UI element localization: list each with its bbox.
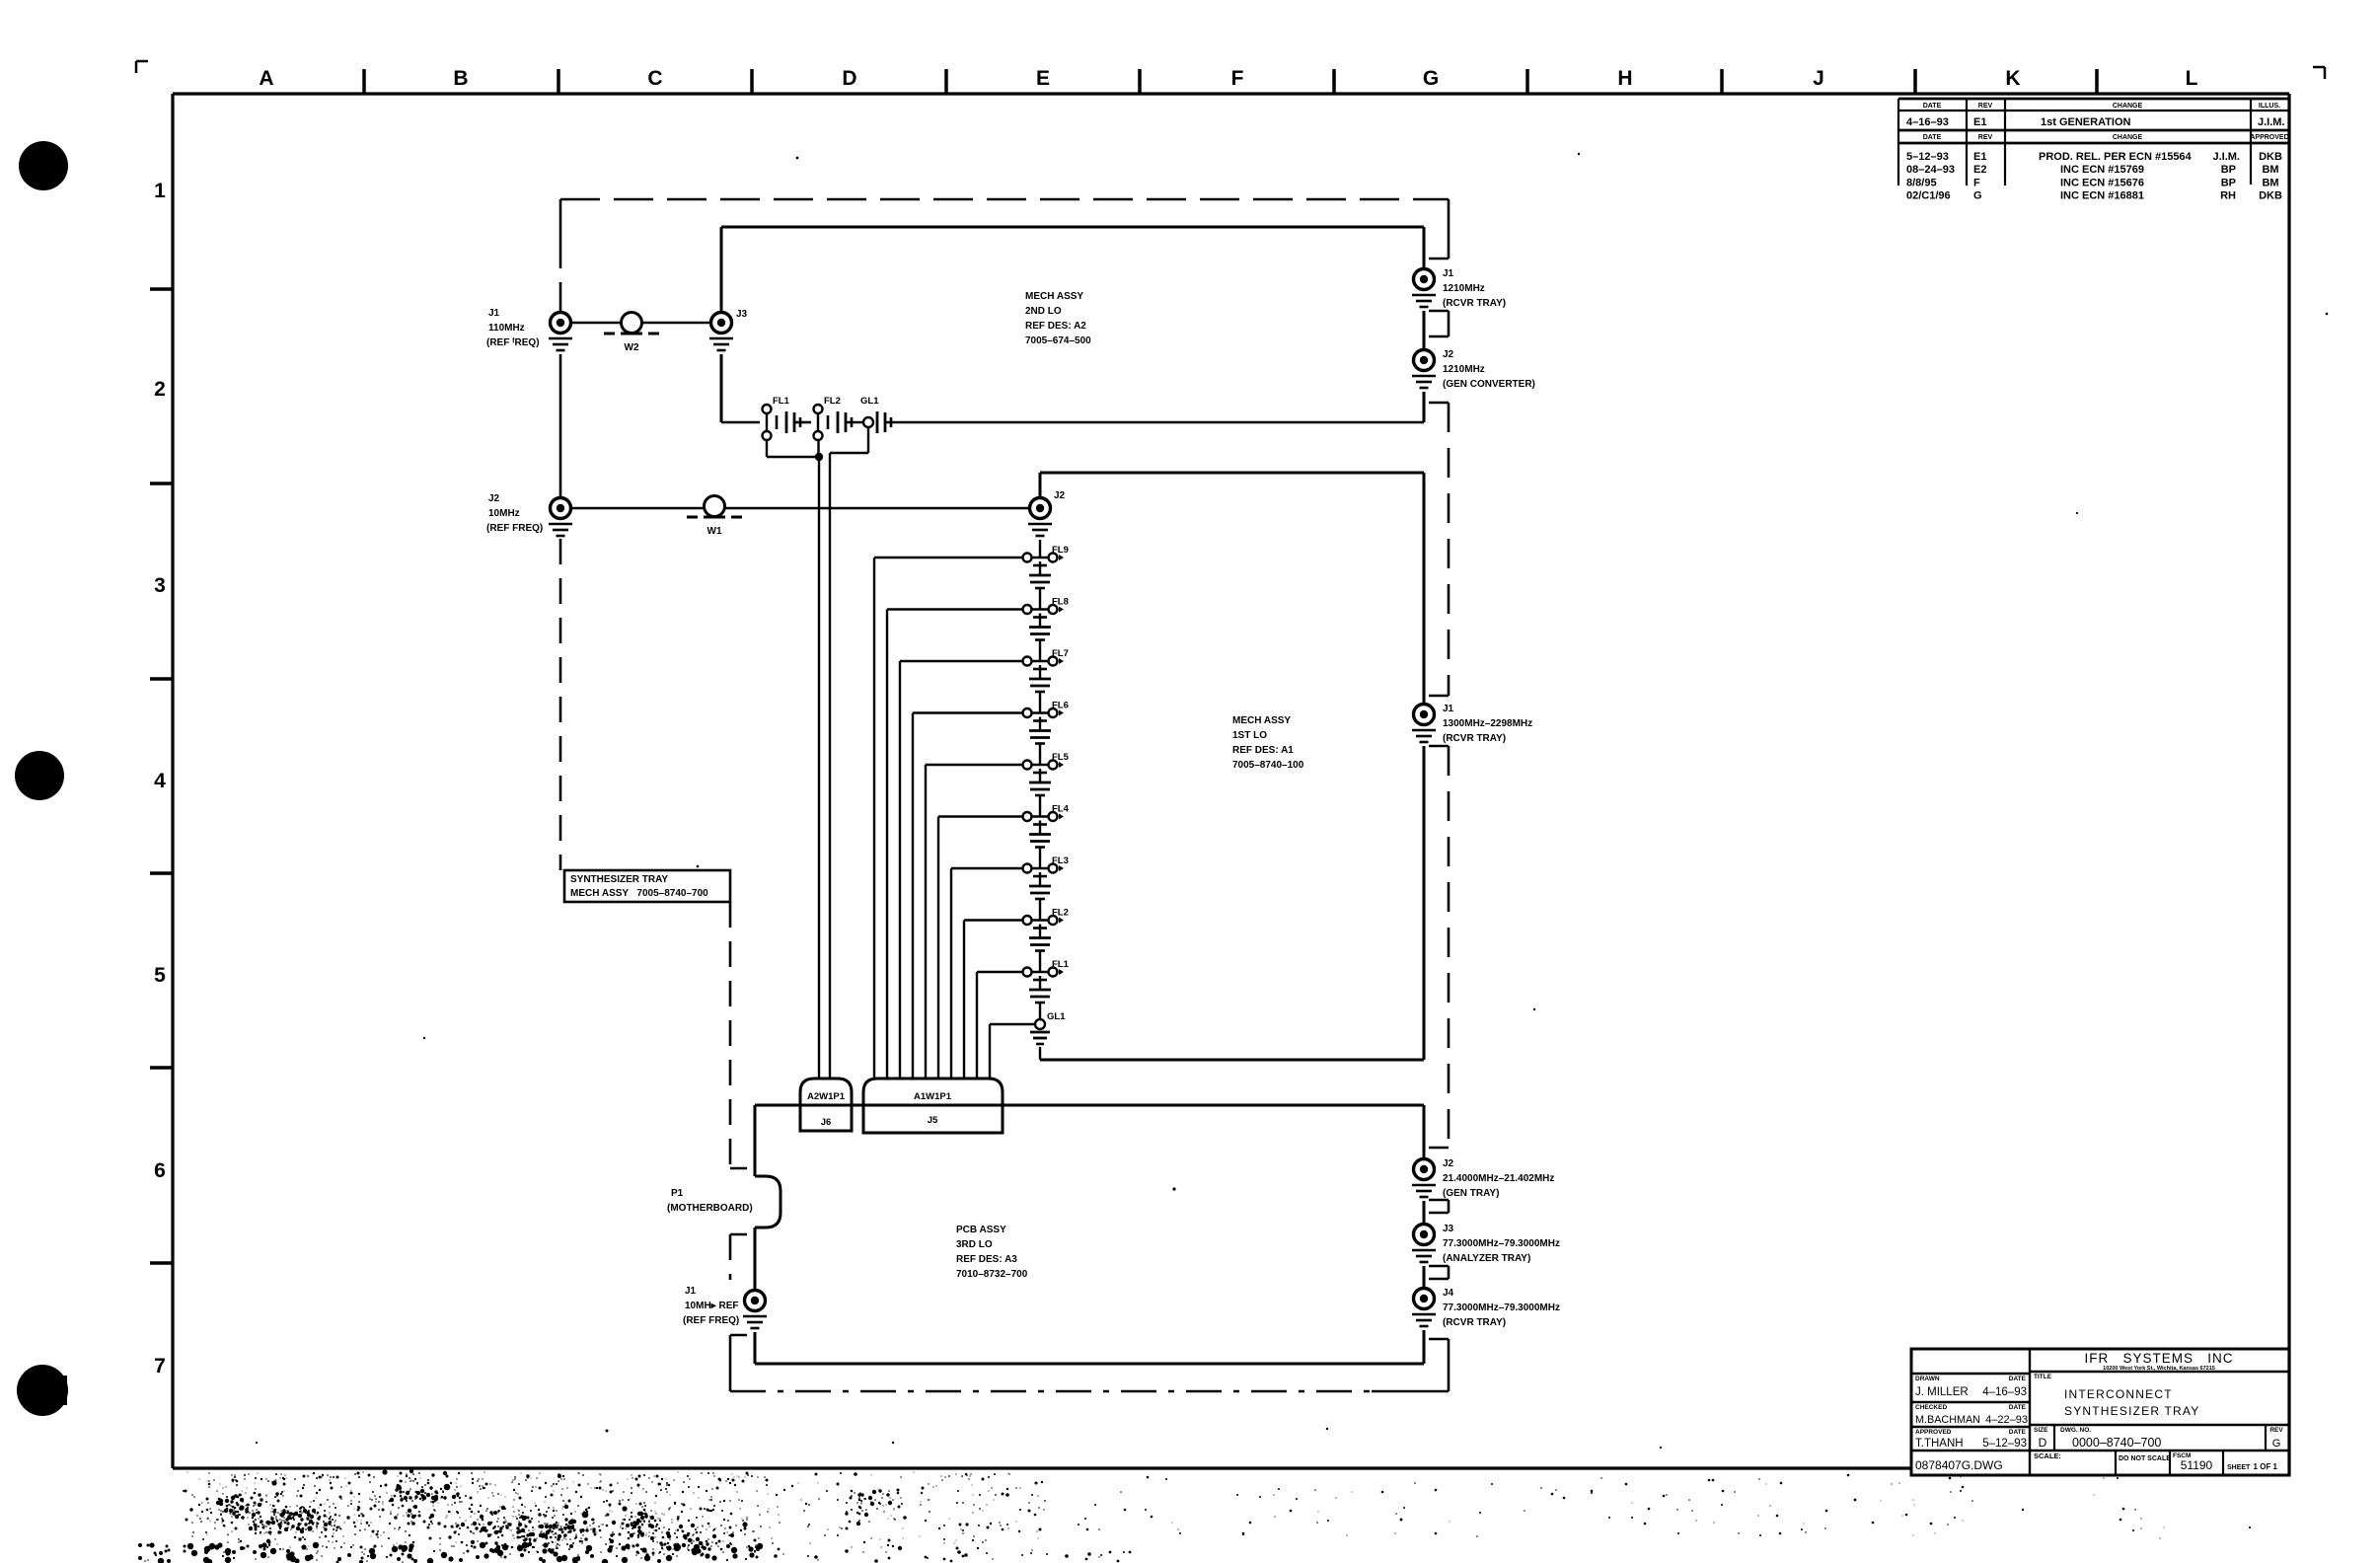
svg-text:A1W1P1: A1W1P1 [914, 1091, 952, 1102]
feedthrough capacitor FL7 (A1) [1023, 648, 1069, 713]
svg-text:DATE: DATE [1923, 134, 1942, 141]
svg-text:INTERCONNECT: INTERCONNECT [2064, 1387, 2173, 1401]
svg-text:1210MHz: 1210MHz [1443, 283, 1485, 294]
svg-text:E: E [1036, 67, 1050, 90]
wire: FL1/FL2 to connector J6 pin [767, 441, 819, 1079]
svg-text:(GEN CONVERTER): (GEN CONVERTER) [1443, 379, 1535, 390]
svg-text:DATE: DATE [1923, 103, 1942, 110]
svg-text:(REF FREQ): (REF FREQ) [486, 523, 543, 534]
svg-text:A: A [259, 67, 273, 90]
svg-text:J6: J6 [821, 1117, 832, 1128]
svg-text:PCB ASSY: PCB ASSY [956, 1225, 1006, 1235]
svg-text:FL2: FL2 [824, 396, 841, 407]
svg-text:C: C [647, 67, 662, 90]
svg-text:J3: J3 [1443, 1224, 1454, 1234]
svg-text:J5: J5 [928, 1115, 938, 1126]
svg-text:1st GENERATION: 1st GENERATION [2041, 116, 2131, 128]
svg-text:GL1: GL1 [860, 396, 879, 407]
svg-text:DKB: DKB [2259, 190, 2282, 202]
wire: FL1 to connector J5 pin [977, 972, 1022, 1079]
svg-text:FL3: FL3 [1052, 856, 1069, 866]
wire: assembly A3 PCB outline [755, 1105, 1424, 1364]
svg-text:DATE: DATE [2009, 1404, 2027, 1411]
svg-text:SYNTHESIZER TRAY: SYNTHESIZER TRAY [570, 874, 668, 885]
svg-text:2ND LO: 2ND LO [1025, 306, 1062, 317]
feedthrough capacitor FL1 (A2) [763, 396, 801, 440]
svg-text:0000–8740–700: 0000–8740–700 [2072, 1436, 2161, 1450]
feedthrough capacitor FL2 (A1) [1023, 908, 1069, 973]
svg-text:J3: J3 [736, 309, 748, 320]
svg-text:7010–8732–700: 7010–8732–700 [956, 1269, 1028, 1280]
feedthrough capacitor FL5 (A1) [1023, 752, 1070, 817]
svg-text:BP: BP [2221, 177, 2236, 188]
svg-text:REF DES: A2: REF DES: A2 [1025, 321, 1086, 332]
svg-text:FL6: FL6 [1052, 701, 1069, 711]
svg-text:E1: E1 [1973, 151, 1986, 163]
svg-text:D: D [2039, 1436, 2047, 1450]
svg-text:FL7: FL7 [1052, 648, 1069, 659]
connector J1 10MHz REF (REF FREQ) [683, 1286, 766, 1326]
svg-text:M.BACHMAN: M.BACHMAN [1915, 1414, 1980, 1426]
svg-text:MECH ASSY 7005–8740–700: MECH ASSY 7005–8740–700 [570, 888, 708, 899]
connector P1 (MOTHERBOARD) [667, 1176, 781, 1228]
svg-text:8/8/95: 8/8/95 [1906, 177, 1937, 188]
wire: GL1 to connector J6 pin [830, 427, 868, 1079]
svg-text:1210MHz: 1210MHz [1443, 364, 1485, 375]
connector A1W1P1 / J5 [863, 1079, 1003, 1133]
wire: FL3 to connector J5 pin [951, 868, 1022, 1079]
wire: FL8 to connector J5 pin [887, 610, 1022, 1079]
svg-text:(RCVR TRAY): (RCVR TRAY) [1443, 1317, 1506, 1328]
svg-text:21.4000MHz–21.402MHz: 21.4000MHz–21.402MHz [1443, 1173, 1554, 1184]
svg-text:J2: J2 [488, 493, 500, 504]
svg-text:J1: J1 [1443, 704, 1454, 714]
svg-text:3: 3 [154, 574, 166, 597]
svg-text:(RCVR TRAY): (RCVR TRAY) [1443, 298, 1506, 309]
svg-text:J: J [1813, 67, 1824, 90]
connector J2 1210MHz (GEN CONVERTER) [1414, 349, 1535, 390]
svg-text:J.I.M.: J.I.M. [2212, 151, 2240, 163]
svg-text:IFR SYSTEMS INC: IFR SYSTEMS INC [2084, 1351, 2233, 1366]
junction [815, 453, 823, 461]
svg-text:4–22–93: 4–22–93 [1985, 1414, 2028, 1426]
svg-text:G: G [1423, 67, 1439, 90]
svg-text:D: D [842, 67, 856, 90]
svg-text:MECH ASSY: MECH ASSY [1232, 715, 1291, 726]
connector J1 110MHz (REF FREQ) [486, 308, 571, 348]
svg-text:FL5: FL5 [1052, 752, 1070, 763]
svg-text:SYNTHESIZER TRAY: SYNTHESIZER TRAY [2064, 1404, 2199, 1418]
wire J2-10MHz to J2 (1ST LO) [570, 507, 1029, 510]
wire: FL5 to connector J5 pin [926, 765, 1022, 1079]
wire: FL9 to connector J5 pin [874, 558, 1022, 1079]
svg-text:(MOTHERBOARD): (MOTHERBOARD) [667, 1203, 753, 1214]
svg-text:J2: J2 [1054, 490, 1066, 501]
feedthrough capacitor FL3 (A1) [1023, 856, 1069, 921]
svg-text:PROD. REL. PER ECN #15564: PROD. REL. PER ECN #15564 [2039, 151, 2193, 163]
svg-text:DWG. NO.: DWG. NO. [2060, 1427, 2091, 1434]
svg-text:FL1: FL1 [1052, 959, 1070, 970]
ground [1412, 1250, 1436, 1262]
svg-text:F: F [1231, 67, 1244, 90]
connector J1 1300MHz-2298MHz (RCVR TRAY) [1414, 704, 1533, 744]
svg-text:J2: J2 [1443, 1158, 1454, 1169]
svg-text:MECH ASSY: MECH ASSY [1025, 291, 1083, 302]
svg-text:F: F [1973, 177, 1980, 188]
svg-text:J1: J1 [1443, 268, 1454, 279]
svg-text:6: 6 [154, 1159, 166, 1182]
wire: assembly A2 2ND LO enclosure loop [721, 227, 1424, 422]
ground [1412, 295, 1436, 307]
svg-text:3RD LO: 3RD LO [956, 1239, 993, 1250]
tray label box SYNTHESIZER TRAY MECH ASSY 7005-8740-700 [564, 870, 730, 902]
svg-text:K: K [2005, 67, 2020, 90]
svg-text:FL2: FL2 [1052, 908, 1069, 919]
cable W1 [687, 496, 742, 538]
svg-text:4–16–93: 4–16–93 [1906, 116, 1949, 128]
svg-text:TITLE: TITLE [2034, 1374, 2052, 1380]
svg-text:02/C1/96: 02/C1/96 [1906, 190, 1951, 202]
svg-text:G: G [2272, 1438, 2281, 1450]
svg-text:CHANGE: CHANGE [2113, 103, 2143, 110]
ground [549, 338, 572, 350]
svg-text:J2: J2 [1443, 349, 1454, 360]
svg-text:10MH▸ REF: 10MH▸ REF [685, 1301, 738, 1311]
svg-text:W2: W2 [625, 342, 639, 353]
svg-text:110MHz: 110MHz [488, 323, 525, 334]
svg-text:G: G [1973, 190, 1982, 202]
wire: FL6 to connector J5 pin [913, 713, 1022, 1079]
connector J1 1210MHz (RCVR TRAY) [1414, 268, 1507, 309]
connector J3 77.3000MHz-79.3000MHz (ANALYZER TRAY) [1414, 1224, 1560, 1264]
svg-text:REF DES: A3: REF DES: A3 [956, 1254, 1017, 1265]
svg-text:1: 1 [154, 180, 166, 202]
feedthrough capacitor GL1 (A2) [860, 396, 891, 433]
svg-text:77.3000MHz–79.3000MHz: 77.3000MHz–79.3000MHz [1443, 1302, 1560, 1313]
feedthrough capacitor FL8 (A1) [1023, 597, 1069, 662]
svg-text:1ST LO: 1ST LO [1232, 730, 1267, 741]
svg-text:7005–8740–100: 7005–8740–100 [1232, 760, 1304, 771]
svg-text:(RCVR TRAY): (RCVR TRAY) [1443, 733, 1506, 744]
svg-text:APPROVED: APPROVED [1915, 1429, 1952, 1436]
assembly A2 label MECH ASSY 2ND LO [1025, 291, 1091, 346]
svg-text:GL1: GL1 [1047, 1011, 1066, 1022]
svg-text:CHANGE: CHANGE [2113, 134, 2143, 141]
svg-text:0878407G.DWG: 0878407G.DWG [1915, 1458, 2003, 1472]
wire: FL4 to connector J5 pin [938, 817, 1022, 1079]
svg-text:CHECKED: CHECKED [1915, 1404, 1947, 1411]
ground [1412, 1185, 1436, 1197]
svg-text:(ANALYZER TRAY): (ANALYZER TRAY) [1443, 1253, 1530, 1264]
svg-text:REF DES: A1: REF DES: A1 [1232, 745, 1294, 756]
wire: assembly A1 1ST LO enclosure loop [1040, 473, 1424, 1060]
feedthrough capacitor FL2 (A2) [814, 396, 853, 440]
ground [549, 524, 572, 536]
connector J2 (1ST LO input) [1030, 490, 1066, 519]
svg-text:REV: REV [1978, 103, 1993, 110]
svg-text:5: 5 [154, 964, 166, 987]
svg-text:B: B [453, 67, 468, 90]
tray boundary (SYNTHESIZER TRAY dashed outline) [560, 199, 1449, 1391]
svg-text:08–24–93: 08–24–93 [1906, 164, 1955, 176]
wire: FL2 to connector J5 pin [964, 921, 1022, 1079]
connector J3 (2ND LO input) [711, 309, 748, 334]
svg-text:DKB: DKB [2259, 151, 2282, 163]
svg-text:5–12–93: 5–12–93 [1982, 1438, 2027, 1450]
ground [1412, 1314, 1436, 1326]
svg-text:ILLUS.: ILLUS. [2259, 103, 2280, 110]
svg-text:INC ECN #15769: INC ECN #15769 [2060, 164, 2144, 176]
svg-text:7: 7 [154, 1355, 166, 1377]
svg-text:FL8: FL8 [1052, 597, 1069, 608]
feedthrough capacitor FL1 (A1) [1023, 959, 1070, 1024]
svg-text:BM: BM [2262, 177, 2278, 188]
assembly A1 label MECH ASSY 1ST LO [1232, 715, 1304, 771]
svg-text:W1: W1 [707, 526, 722, 537]
svg-text:(GEN TRAY): (GEN TRAY) [1443, 1188, 1499, 1199]
svg-text:J.I.M.: J.I.M. [2258, 116, 2285, 128]
svg-text:FL1: FL1 [773, 396, 790, 407]
svg-text:T.THANH: T.THANH [1915, 1438, 1964, 1450]
ground [743, 1316, 767, 1328]
svg-text:SHEET: SHEET [2227, 1464, 2251, 1471]
ground [1028, 524, 1052, 536]
svg-text:4–16–93: 4–16–93 [1982, 1386, 2027, 1398]
connector J4 77.3000MHz-79.3000MHz (RCVR TRAY) [1414, 1288, 1560, 1328]
svg-text:J1: J1 [488, 308, 500, 319]
svg-text:(REF FREQ): (REF FREQ) [683, 1315, 739, 1326]
svg-text:5–12–93: 5–12–93 [1906, 151, 1949, 163]
svg-text:51190: 51190 [2181, 1458, 2213, 1472]
svg-text:P1: P1 [671, 1188, 684, 1199]
svg-text:1300MHz–2298MHz: 1300MHz–2298MHz [1443, 718, 1532, 729]
connector A2W1P1 / J6 [800, 1079, 852, 1131]
svg-text:SCALE:: SCALE: [2034, 1451, 2061, 1460]
wire J1-110MHz to J3 [570, 322, 720, 325]
svg-text:E2: E2 [1973, 164, 1986, 176]
svg-text:H: H [1617, 67, 1632, 90]
svg-text:SIZE: SIZE [2034, 1427, 2048, 1434]
ground [709, 338, 733, 350]
svg-text:DRAWN: DRAWN [1915, 1376, 1940, 1382]
svg-text:77.3000MHz–79.3000MHz: 77.3000MHz–79.3000MHz [1443, 1238, 1560, 1249]
svg-text:2: 2 [154, 378, 166, 401]
svg-text:10200 West York St., Wichita,: 10200 West York St., Wichita, Kansas 672… [2103, 1366, 2215, 1372]
connector J2 21.4000MHz-21.402MHz (GEN TRAY) [1414, 1158, 1555, 1199]
feedthrough capacitor FL6 (A1) [1023, 701, 1069, 766]
svg-text:FL9: FL9 [1052, 545, 1069, 556]
svg-text:J4: J4 [1443, 1288, 1454, 1299]
svg-text:BP: BP [2221, 164, 2236, 176]
svg-text:10MHz: 10MHz [488, 508, 520, 519]
svg-text:INC ECN #15676: INC ECN #15676 [2060, 177, 2144, 188]
feedthrough capacitor GL1 (A1) [1030, 1011, 1066, 1060]
svg-text:E1: E1 [1973, 116, 1986, 128]
svg-text:DO NOT SCALE: DO NOT SCALE [2119, 1455, 2171, 1462]
svg-text:REV: REV [1978, 134, 1993, 141]
svg-text:REV: REV [2269, 1427, 2283, 1434]
assembly A3 label PCB ASSY 3RD LO [956, 1225, 1028, 1280]
svg-text:FL4: FL4 [1052, 804, 1070, 815]
svg-text:BM: BM [2262, 164, 2278, 176]
svg-text:DATE: DATE [2009, 1429, 2027, 1436]
cable W2 [604, 313, 659, 354]
svg-text:4: 4 [154, 770, 166, 792]
svg-text:DATE: DATE [2009, 1376, 2027, 1382]
ground [1412, 376, 1436, 388]
feedthrough capacitor FL9 (A1) [1023, 545, 1069, 610]
svg-text:7005–674–500: 7005–674–500 [1025, 335, 1091, 346]
feedthrough capacitor FL4 (A1) [1023, 804, 1070, 869]
svg-text:INC ECN #16881: INC ECN #16881 [2060, 190, 2144, 202]
svg-text:APPROVED: APPROVED [2250, 134, 2288, 141]
svg-text:L: L [2186, 67, 2198, 90]
svg-text:1 OF 1: 1 OF 1 [2254, 1462, 2278, 1471]
svg-text:RH: RH [2220, 190, 2236, 202]
wire: FL7 to connector J5 pin [900, 661, 1022, 1079]
svg-text:J1: J1 [685, 1286, 697, 1297]
svg-text:A2W1P1: A2W1P1 [807, 1091, 846, 1102]
svg-text:J. MILLER: J. MILLER [1915, 1386, 1969, 1398]
wire: GL1 to connector J5 pin [990, 1024, 1035, 1079]
connector J2 10MHz (REF FREQ) [486, 493, 571, 534]
ground [1412, 730, 1436, 742]
svg-text:(REF ᶠREQ): (REF ᶠREQ) [486, 337, 540, 348]
